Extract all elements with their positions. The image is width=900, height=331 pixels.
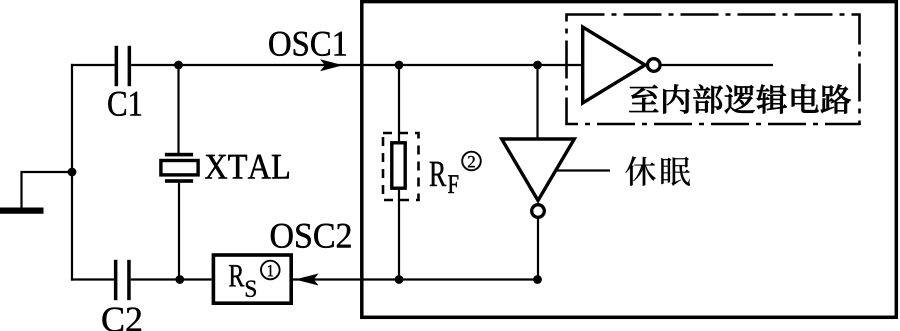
label sleep <box>625 156 690 185</box>
label to internal logic <box>629 84 850 113</box>
inverter U1 <box>583 27 773 103</box>
wire left vertical <box>71 64 73 281</box>
label OSC2 <box>271 224 351 248</box>
inverter U2 sleep <box>502 65 575 280</box>
node U2 bottom <box>533 275 542 284</box>
node B junction C2/XTAL <box>175 275 184 284</box>
arrow into OSC2 <box>295 274 319 286</box>
wire OSC1 top <box>71 64 583 66</box>
resistor RF <box>383 65 458 280</box>
IC box <box>362 2 897 318</box>
capacitor C2 <box>103 260 142 331</box>
ground <box>0 171 72 211</box>
node RF bottom <box>395 275 404 284</box>
label OSC1 <box>269 32 346 56</box>
crystal XTAL <box>161 65 289 280</box>
wire to sleep label <box>556 169 610 171</box>
pin marker 2 circled <box>462 152 481 171</box>
node ground junction <box>68 168 77 177</box>
node U2 top <box>533 61 542 70</box>
wire OSC2 bottom <box>71 278 538 280</box>
arrow into OSC1 <box>320 59 343 71</box>
node A junction C1/XTAL <box>174 61 183 70</box>
pin marker 1 circled <box>261 261 280 280</box>
node RF top <box>395 61 404 70</box>
resistor RS <box>213 255 291 303</box>
dash-dot box <box>567 15 860 125</box>
capacitor C1 <box>108 46 141 116</box>
